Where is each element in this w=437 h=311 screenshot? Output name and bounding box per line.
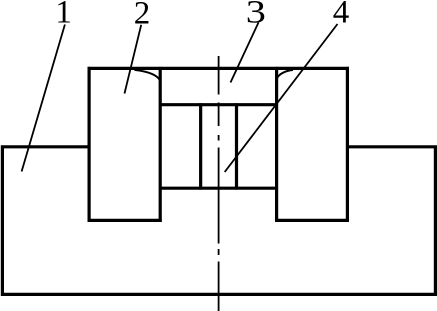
svg-text:3: 3	[246, 0, 266, 29]
left block part 2 left edge	[87, 67, 90, 222]
base part 1 outline	[2, 147, 435, 295]
left block part 2 bottom edge	[88, 219, 162, 222]
center post part 4 left edge	[199, 103, 202, 189]
leader line 4	[225, 24, 338, 172]
top line of core assembly	[88, 67, 350, 70]
svg-text:1: 1	[55, 0, 72, 30]
right block bottom edge	[275, 219, 349, 222]
svg-text:2: 2	[134, 0, 151, 31]
right block right edge	[346, 67, 349, 222]
leader line 1	[22, 25, 65, 172]
right block left edge	[275, 67, 278, 222]
left fillet arc	[135, 70, 161, 81]
right fillet arc	[277, 70, 293, 79]
center dash-dot line	[218, 56, 220, 311]
leader line 2	[125, 25, 142, 94]
top bar part 3 bottom edge	[160, 103, 276, 106]
left block part 2 right edge	[159, 67, 162, 222]
leader line 3	[231, 23, 259, 83]
inner lower shelf line	[160, 187, 276, 190]
center post part 4 right edge	[235, 103, 238, 189]
svg-text:4: 4	[333, 0, 350, 30]
